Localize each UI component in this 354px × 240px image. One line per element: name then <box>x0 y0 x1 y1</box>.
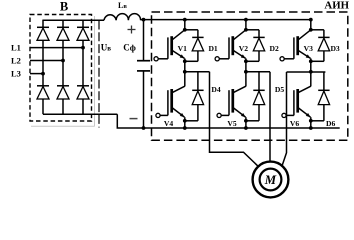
transistor V5 (IGBT) <box>217 86 246 117</box>
wire: top dc rail <box>141 19 311 21</box>
inductor Lv (smoothing choke) <box>104 14 141 21</box>
wire: phase A tap horizontal <box>185 71 210 73</box>
wire: negative rail step down to inverter level <box>117 114 143 128</box>
svg-text:V2: V2 <box>239 44 248 53</box>
wire: D1 cathode branch <box>185 29 198 31</box>
node: top rail / V1 collector <box>183 18 187 22</box>
transistor V6 (IGBT) <box>282 86 311 117</box>
node: cap + junction <box>142 18 146 22</box>
svg-text:L3: L3 <box>11 69 21 79</box>
node: cap - junction <box>142 126 146 130</box>
wire: phase leg 1 emitter to tap <box>184 58 186 86</box>
node: phase tap 2 <box>244 70 248 74</box>
node L3-leg1 <box>41 72 45 76</box>
svg-text:D5: D5 <box>275 85 284 94</box>
dashed Uv measurement line <box>98 21 100 128</box>
node: V1/D1 split <box>183 28 187 32</box>
wire: rectifier bottom bus <box>43 113 117 115</box>
node D2 anode junction <box>244 59 248 63</box>
node: top rail / V2 collector <box>244 18 248 22</box>
diode D3 <box>311 30 330 62</box>
wire: rectifier top bus <box>43 19 104 21</box>
node D1 anode junction <box>183 59 187 63</box>
svg-text:D3: D3 <box>330 44 339 53</box>
wire: rectifier leg 1 <box>42 20 44 28</box>
transistor V3 (IGBT) <box>280 30 311 61</box>
svg-text:V6: V6 <box>290 119 299 128</box>
svg-text:Сф: Сф <box>123 43 136 53</box>
node D6 anode junction <box>309 119 313 123</box>
node: phase tap 3 <box>309 70 313 74</box>
svg-text:L1: L1 <box>11 43 21 53</box>
diode VD4 bottom (rectifier) <box>37 85 49 87</box>
node: V5 emitter / bottom rail <box>244 126 248 130</box>
svg-text:V5: V5 <box>227 119 236 128</box>
node: phase tap 1 <box>183 70 187 74</box>
node L2-leg2 <box>61 59 65 63</box>
svg-text:L2: L2 <box>11 56 21 66</box>
wire: D2 cathode branch <box>246 29 259 31</box>
svg-text:АИН: АИН <box>324 0 349 12</box>
rectifier dashed box B <box>30 15 92 122</box>
node D4 anode junction <box>183 119 187 123</box>
svg-text:D1: D1 <box>208 44 217 53</box>
wire: V4 emitter to bottom rail <box>184 117 186 128</box>
wire: phase C tap horizontal <box>287 71 326 73</box>
svg-text:Lв: Lв <box>118 1 127 10</box>
label minus <box>130 118 138 120</box>
capacitor Cf <box>143 20 145 61</box>
wire: inverter bottom rail <box>144 127 340 129</box>
diode D1 <box>185 30 204 62</box>
diode VD6 bottom (rectifier) <box>77 85 89 87</box>
label plus <box>128 29 136 31</box>
transistor V2 (IGBT) <box>215 30 246 61</box>
wire: phase input L3 <box>30 73 43 75</box>
svg-text:M: M <box>264 173 277 187</box>
diode VD1 top (rectifier) <box>37 26 49 28</box>
wire: rectifier leg 3 <box>82 20 84 28</box>
node L1-leg3 <box>81 46 85 50</box>
diode D6 <box>311 72 330 121</box>
wire: V1 collector drop <box>184 20 186 30</box>
wire: phase A output <box>210 72 259 167</box>
svg-text:V3: V3 <box>304 44 313 53</box>
transistor V4 (IGBT) <box>156 86 185 117</box>
svg-text:Uв: Uв <box>101 43 112 53</box>
node: V4 emitter / bottom rail <box>183 126 187 130</box>
node D3 anode junction <box>309 59 313 63</box>
node: V6 emitter / bottom rail <box>309 126 313 130</box>
wire: V3 collector drop <box>310 20 312 30</box>
motor M <box>253 162 289 198</box>
wire: phase leg 3 emitter to tap <box>310 58 312 86</box>
wire: phase C output <box>282 72 287 166</box>
wire: phase B tap horizontal <box>246 71 270 73</box>
svg-text:D2: D2 <box>270 44 279 53</box>
node: V3/D3 split <box>309 28 313 32</box>
node: top rail / V3 collector <box>309 18 313 22</box>
diode VD2 top (rectifier) <box>57 26 69 28</box>
svg-text:D6: D6 <box>326 119 335 128</box>
svg-text:В: В <box>60 0 68 13</box>
wire: phase leg 2 emitter to tap <box>245 58 247 86</box>
diode VD5 bottom (rectifier) <box>57 85 69 87</box>
wire: phase input L2 <box>30 60 63 62</box>
wire: phase B output <box>269 72 271 162</box>
wire: V2 collector drop <box>245 20 247 30</box>
wire: V5 emitter to bottom rail <box>245 117 247 128</box>
diode VD3 top (rectifier) <box>77 26 89 28</box>
node: V2/D2 split <box>244 28 248 32</box>
wire: phase input L1 <box>30 47 83 49</box>
wire: D3 cathode branch <box>311 29 324 31</box>
wire: rectifier leg 2 <box>62 20 64 28</box>
inverter dashed box AIN <box>152 12 348 140</box>
node D5 anode junction <box>244 119 248 123</box>
transistor V1 (IGBT) <box>154 30 185 61</box>
diode D5 <box>246 72 265 121</box>
diode D4 <box>185 72 204 121</box>
wire: V6 emitter to bottom rail <box>310 117 312 128</box>
diode D2 <box>246 30 265 62</box>
svg-text:V1: V1 <box>178 44 187 53</box>
scan artifact gray lines <box>94 16 96 127</box>
svg-text:V4: V4 <box>164 119 173 128</box>
svg-text:D4: D4 <box>211 85 220 94</box>
